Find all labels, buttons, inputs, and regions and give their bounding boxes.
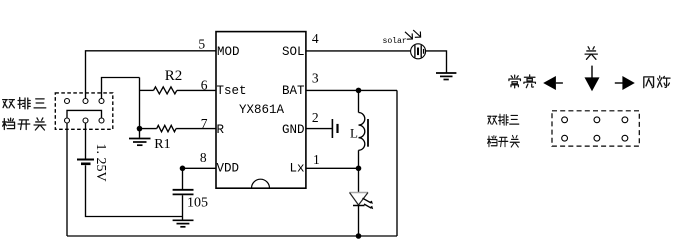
switch S1 contacts bottom row <box>65 118 105 123</box>
wire pin4 SOL to solar cell <box>306 50 411 52</box>
wire pin5 MOD to switch top-middle <box>86 51 217 99</box>
wire switch bottom-middle to battery <box>85 123 87 158</box>
battery BT1 1.25V <box>77 160 94 164</box>
svg-text:2: 2 <box>312 110 319 125</box>
svg-text:R1: R1 <box>154 137 170 152</box>
svg-text:SOL: SOL <box>282 45 305 59</box>
legend switch label 双排三 <box>488 114 519 125</box>
wire pin2 GND to capacitor C2 <box>306 128 332 130</box>
resistor R1 <box>157 125 176 131</box>
svg-text:8: 8 <box>200 150 207 165</box>
ground at solar <box>436 73 456 80</box>
svg-text:105: 105 <box>187 195 208 210</box>
inductor L <box>359 90 369 168</box>
node junction dot BAT/inductor <box>356 88 362 94</box>
svg-text:5: 5 <box>198 37 205 52</box>
wire pin1 Lx to LED node <box>306 167 359 169</box>
wire VDD node to capacitor <box>182 168 184 189</box>
wire Lx node to LED <box>358 168 360 192</box>
wire R node to R1 <box>140 128 157 130</box>
svg-text:YX861A: YX861A <box>239 103 285 117</box>
legend 关 label <box>585 47 597 60</box>
switch S1 label 双排三 <box>3 98 46 109</box>
switch S1 bridge wire <box>67 110 102 117</box>
wire solar cell to ground <box>426 51 447 73</box>
wire R node vertical <box>139 78 141 138</box>
legend switch contacts top row <box>562 117 628 123</box>
svg-text:1: 1 <box>313 152 320 167</box>
svg-text:GND: GND <box>282 123 305 137</box>
ground below capacitor 105 <box>173 220 194 227</box>
ground below R node <box>129 139 151 146</box>
svg-text:R: R <box>217 123 225 137</box>
legend switch contacts bottom row <box>562 135 628 141</box>
legend left arrow <box>543 76 563 90</box>
wire switch bottom-left to bottom rail <box>66 123 68 236</box>
node junction dot Lx/inductor/LED <box>356 166 362 172</box>
switch S1 label 档开关 <box>3 118 46 130</box>
legend right arrow <box>615 76 635 90</box>
resistor R2 <box>154 87 177 94</box>
wire pin3 BAT to right rail <box>306 89 397 91</box>
LED arrows <box>363 198 374 209</box>
solar arrows <box>405 30 420 39</box>
svg-text:4: 4 <box>312 31 319 46</box>
wire pin8 VDD <box>183 167 217 169</box>
legend switch dashed body <box>552 111 639 146</box>
legend switch label 档开关 <box>488 135 520 147</box>
right rail wire <box>396 90 398 236</box>
switch S1 dashed body <box>55 93 113 129</box>
wire battery to ground stem <box>86 165 183 216</box>
svg-text:R2: R2 <box>165 68 183 84</box>
legend 闪烁 label <box>644 76 670 88</box>
svg-text:VDD: VDD <box>217 162 240 176</box>
svg-text:MOD: MOD <box>217 45 240 59</box>
wire R1 to pin7 <box>176 128 216 130</box>
svg-text:solar: solar <box>383 36 407 46</box>
legend down arrow <box>585 66 600 92</box>
svg-text:3: 3 <box>312 71 319 86</box>
svg-text:BAT: BAT <box>282 84 305 98</box>
solar cell PV1 <box>411 44 426 59</box>
capacitor C1 105 <box>173 190 194 195</box>
svg-text:Lx: Lx <box>289 162 304 176</box>
wire switch top-right to R node <box>102 78 140 99</box>
node junction dot VDD node <box>180 166 186 172</box>
node junction dot R node <box>137 126 143 132</box>
svg-text:Tset: Tset <box>217 84 247 98</box>
capacitor C2 at GND <box>332 119 337 138</box>
legend 常亮 label <box>509 75 536 88</box>
node junction dot LED bottom <box>356 233 362 239</box>
wire R node to R2 <box>140 89 154 91</box>
wire R2 to pin6 <box>177 89 216 91</box>
svg-text:L: L <box>350 126 358 141</box>
wire capacitor to ground <box>182 195 184 220</box>
switch S1 contacts top row <box>65 99 105 104</box>
IC U1 YX861A body <box>216 32 306 189</box>
wire LED to bottom rail <box>358 206 360 236</box>
bottom wire <box>67 235 397 237</box>
LED D1 <box>350 193 369 206</box>
svg-text:1. 25V: 1. 25V <box>93 144 108 182</box>
